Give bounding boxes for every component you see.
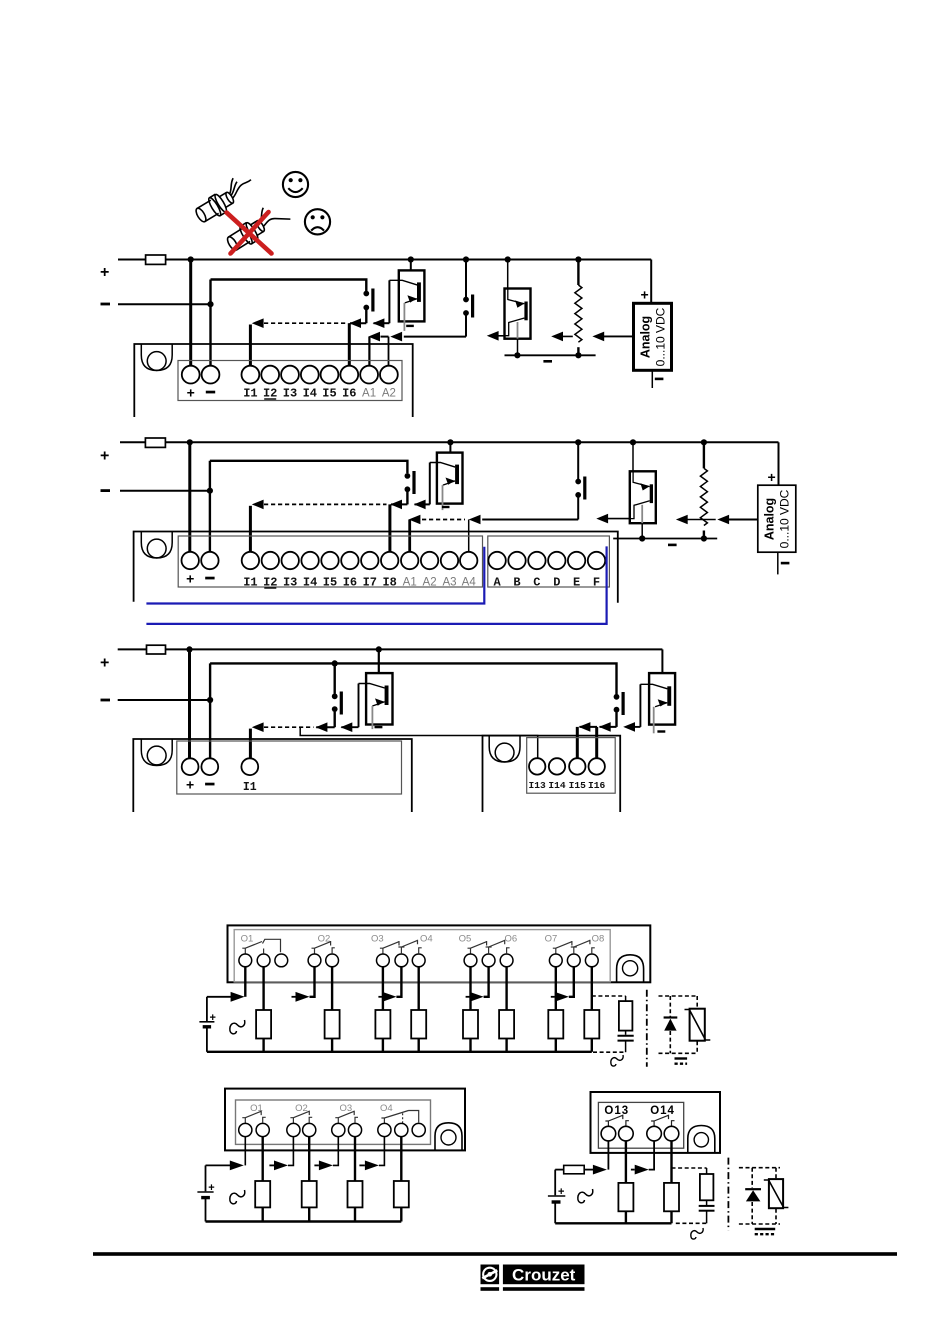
svg-text:Crouzet: Crouzet — [512, 1265, 576, 1284]
svg-text:+: + — [768, 469, 776, 485]
arrow on input row at S5 — [316, 722, 328, 732]
switch S3 contact — [405, 471, 416, 494]
node loop to switch S5 — [332, 660, 338, 666]
dashed input row I1..I8 — [264, 503, 387, 505]
svg-text:A: A — [493, 576, 501, 590]
relay contact O3 M5 — [335, 1111, 358, 1124]
module M1 outline — [134, 344, 412, 417]
wire switch supply loop — [211, 280, 367, 292]
wire fuse to O13 common — [584, 1169, 593, 1171]
wire O3 to load R — [382, 967, 384, 1010]
wire A1 terminal down — [368, 337, 370, 366]
svg-text:F: F — [593, 576, 600, 590]
right row I15 arrow — [579, 722, 591, 732]
svg-text:B: B — [513, 576, 520, 590]
relay contact O2 — [312, 941, 335, 954]
relay contact O1 — [242, 939, 280, 954]
node potentiometer d2 bottom — [701, 535, 707, 541]
load resistor O7 — [548, 1010, 563, 1039]
svg-text:A4: A4 — [462, 577, 477, 589]
module M4 terminal strip — [234, 930, 610, 982]
dashed input row I1..I6 — [264, 322, 346, 324]
wire A4 terminal down — [468, 520, 470, 553]
battery supply d4 — [199, 997, 216, 1052]
svg-text:I14: I14 — [548, 780, 566, 791]
wire bus to sensor B4 — [632, 442, 634, 471]
wire battery to O1 common d5 — [206, 1164, 231, 1166]
svg-text:I5: I5 — [322, 387, 336, 401]
+24V bus wire d2 — [120, 441, 779, 443]
wire O2 common down — [310, 967, 315, 997]
load resistor O4 d5 — [394, 1181, 409, 1207]
module M1 mounting ear — [141, 344, 172, 371]
wire I1 terminal down — [249, 325, 252, 367]
minus label return line — [543, 360, 552, 363]
arrow into O1 common — [231, 992, 245, 1002]
svg-text:O7: O7 — [545, 933, 558, 944]
wire O2 load to rail — [331, 1039, 333, 1052]
wire I1 terminal down d3 — [249, 729, 252, 759]
proximity sensor (bad orientation, crossed out) — [222, 199, 290, 254]
load resistor O2 — [325, 1010, 340, 1039]
relay contacts O5 O6 — [468, 940, 510, 954]
wire O4 common down d5 — [379, 1137, 385, 1166]
snubber capacitor — [625, 1031, 627, 1035]
node switch S4 on bus — [575, 439, 581, 445]
relay terminal circles M5 — [239, 1123, 426, 1136]
svg-text:O5: O5 — [459, 933, 472, 944]
snubber capacitor d6 — [706, 1200, 708, 1205]
fuse F1 — [146, 255, 166, 264]
3-wire sensor B3 — [430, 453, 463, 511]
arrow sensor B4 output — [596, 514, 608, 524]
load resistor O13 — [618, 1183, 633, 1211]
potentiometer R2 wiper arrow — [681, 519, 716, 521]
serial link blue wire 2 — [146, 546, 606, 624]
wire O3 common down d5 — [333, 1137, 338, 1166]
wire analog row to switch S2 — [404, 336, 466, 338]
wire battery to O1 common — [207, 996, 231, 998]
svg-text:I7: I7 — [363, 576, 377, 590]
switch S6 contact — [614, 692, 625, 715]
wire O2 common down d5 — [288, 1137, 293, 1166]
wire O4 to load R — [418, 967, 420, 1010]
svg-text:I5: I5 — [323, 576, 337, 590]
load resistor O6 — [499, 1010, 514, 1039]
load symbol d4 — [230, 1020, 245, 1034]
relay contacts O7 O8 — [553, 940, 595, 954]
wire bus to switch S2 — [465, 260, 467, 298]
wire switch supply loop d3 — [210, 663, 616, 694]
dashed analog row A1..A4 — [422, 519, 465, 521]
wire switch supply loop d2 — [210, 461, 408, 473]
wire analog row to switch S4 — [482, 519, 578, 521]
wire - terminal down — [209, 280, 211, 367]
wire A2 terminal down — [388, 337, 390, 366]
alternatives separator dash-dot d6 — [727, 1158, 729, 1231]
svg-text:I15: I15 — [569, 780, 587, 791]
wire sensor B2 output arrow — [492, 335, 505, 337]
svg-text:I13: I13 — [529, 780, 547, 791]
wire loop down to switch S5 — [334, 663, 336, 693]
svg-text:+: + — [100, 264, 109, 281]
terminal circles M3b — [529, 758, 605, 774]
module M2 mounting ear — [141, 532, 172, 559]
snubber resistor — [625, 996, 627, 1001]
arrow into O3/O4 common — [382, 992, 396, 1002]
wire O13 common down — [607, 1141, 609, 1170]
svg-text:I1: I1 — [243, 781, 257, 794]
label minus d3 — [101, 699, 111, 702]
svg-text:I3: I3 — [283, 387, 297, 401]
svg-text:O4: O4 — [380, 1103, 393, 1114]
analog row A1 arrow — [368, 332, 380, 342]
arrow into O2 common — [296, 992, 310, 1002]
arrow into O14 common — [635, 1165, 649, 1175]
0V wire d2 — [120, 490, 210, 492]
battery supply d6 — [548, 1170, 565, 1224]
wire analog minus down d2 — [777, 552, 779, 574]
DC symbol — [675, 1057, 688, 1059]
load resistor O14 — [664, 1183, 679, 1211]
node 0V at - terminal d2 — [207, 488, 213, 494]
wire sensor B5 output down — [358, 684, 360, 728]
relay contact O14 — [651, 1115, 674, 1127]
alternatives separator dash-dot — [646, 990, 648, 1067]
arrow into A2 node — [390, 332, 402, 342]
arrow sensor B3 output — [414, 500, 426, 510]
dashed input row d3 — [264, 726, 314, 728]
wire I15 terminal down — [576, 727, 579, 759]
wire + terminal down d3 — [188, 649, 191, 758]
wire bus to analog + — [650, 260, 652, 304]
minus label analog — [655, 378, 664, 381]
wire O1 NO to load R — [262, 967, 264, 1010]
wire + terminal down d2 — [188, 442, 191, 552]
node sensor B4 emitter — [639, 535, 645, 541]
logo underline — [481, 1287, 500, 1291]
analog source arrow — [598, 335, 634, 337]
module M4 outline — [228, 925, 651, 982]
3-wire sensor B2 — [505, 289, 531, 356]
svg-text:I4: I4 — [303, 576, 317, 590]
relay contacts O3 O4 — [380, 940, 422, 954]
relay labels O1..O8 — [241, 933, 605, 944]
svg-text:C: C — [533, 576, 540, 590]
3-wire sensor B1 — [389, 270, 424, 331]
wire bus to analog + d2 — [778, 442, 780, 485]
wire O4 NO to load R d5 — [400, 1137, 402, 1181]
minus label analog d2 — [781, 562, 790, 565]
label minus — [101, 303, 111, 306]
arrow into O4 common d5 — [365, 1161, 379, 1171]
load symbol d6 — [578, 1189, 593, 1203]
wire O1 NO to load R d5 — [262, 1137, 264, 1181]
arrow sensor B6 output — [623, 722, 635, 732]
terminal circles M2 — [182, 552, 606, 569]
snubber dashed link bottom — [593, 1051, 626, 1053]
load resistor O3 d5 — [348, 1181, 363, 1207]
module M1 terminal strip — [178, 361, 402, 401]
0V rail d5 — [206, 1220, 402, 1222]
relay labels O1..O4 M5 — [250, 1103, 392, 1114]
protection diode dashed box — [659, 996, 698, 1053]
wire O1 common down d5 — [244, 1137, 246, 1166]
happy smiley — [283, 172, 308, 197]
svg-text:Analog: Analog — [639, 316, 653, 358]
wire I6 terminal down — [348, 323, 351, 366]
snubber dashed link top — [592, 995, 626, 997]
snubber dashed link bottom d6 — [676, 1222, 707, 1224]
diode D2 — [745, 1188, 761, 1190]
svg-text:+: + — [187, 385, 195, 401]
wire O3 NO to load R d5 — [354, 1137, 356, 1181]
wire - terminal down d2 — [209, 461, 211, 552]
load resistor O3 — [375, 1010, 390, 1039]
module M2 terminal strip I/A — [178, 536, 482, 587]
module M2 outline — [134, 532, 618, 603]
switch S4 contact — [575, 477, 586, 500]
arrow into I1 d2 — [252, 500, 264, 510]
switch S5 contact — [332, 692, 343, 715]
0V return line under sensor B4 — [613, 538, 717, 540]
proximity sensor (good orientation) — [190, 171, 258, 226]
diode D1 — [664, 1016, 678, 1018]
wire sensor B4 output arrow — [601, 518, 630, 520]
module M5 outline — [225, 1089, 465, 1151]
svg-text:E: E — [573, 576, 580, 590]
wire O7 to load R — [555, 967, 557, 1010]
fuse F3 — [147, 645, 166, 654]
potentiometer R2 — [700, 442, 707, 538]
svg-text:A1: A1 — [362, 388, 376, 400]
wire input row to S5 — [316, 726, 335, 728]
wire + terminal down — [189, 260, 192, 367]
node 0V at - terminal — [207, 301, 213, 307]
analog source box 0..10VDC d2 — [758, 485, 796, 552]
node sensor B5 on bus — [376, 646, 382, 652]
node sensor B2 on bus — [505, 256, 511, 262]
extension wire to I13 — [300, 727, 538, 758]
footer rule — [93, 1252, 897, 1256]
node on bus at + terminal — [188, 256, 194, 262]
wire sensor B6 output down — [639, 684, 641, 727]
wire sensor B1 output to row — [374, 322, 390, 324]
svg-text:I8: I8 — [382, 576, 396, 590]
module M2 terminal strip A-F — [488, 536, 610, 587]
svg-text:+: + — [210, 1012, 216, 1024]
wire analog minus down — [651, 370, 653, 388]
wire - terminal down d3 — [209, 663, 211, 758]
relay contact O13 — [605, 1115, 629, 1127]
relay contact O4 M5 — [381, 1111, 418, 1124]
wire O5/O6 common down — [484, 967, 489, 997]
snubber dashed link top d6 — [672, 1167, 707, 1169]
arrow into A4 — [469, 515, 481, 525]
wire O13 NO to load R — [625, 1141, 627, 1183]
wire bus to sensor B5 — [378, 649, 380, 673]
svg-text:I1: I1 — [243, 576, 257, 590]
wire bus to sensor B3 — [449, 442, 451, 452]
module M6 mounting ear — [688, 1126, 715, 1153]
svg-text:0...10 VDC: 0...10 VDC — [654, 307, 668, 366]
red X cross — [227, 212, 272, 254]
wire bus corner to sensor B6 — [661, 649, 663, 673]
svg-text:+: + — [100, 655, 109, 672]
relay contact O2 M5 — [290, 1111, 312, 1124]
module M5 terminal strip — [236, 1100, 431, 1144]
analog source arrow d2 — [722, 519, 758, 521]
module M4 mounting ear — [617, 955, 644, 983]
minus label return line d2 — [668, 544, 677, 547]
node switch S2 on bus — [463, 256, 469, 262]
Crouzet logo wordmark — [503, 1265, 585, 1285]
wire O8 to load R — [591, 967, 593, 1010]
node potentiometer d2 on bus — [701, 439, 707, 445]
wire input row I6 to S1 — [350, 322, 366, 324]
wire battery to fuse d6 — [555, 1169, 564, 1171]
wire I8 terminal down — [388, 504, 391, 552]
0V wire d3 — [118, 699, 210, 701]
svg-text:I4: I4 — [303, 387, 317, 401]
wire switch S2 down to analog row — [465, 316, 467, 337]
wire sensor B6 output to row — [627, 726, 641, 728]
3-wire sensor B5 — [359, 673, 393, 729]
wire switch S6 down to row — [615, 712, 617, 727]
wire O2 NO to load R d5 — [308, 1137, 310, 1181]
arrow into I1 d3 — [252, 722, 264, 732]
analog source box 0..10VDC — [634, 303, 672, 370]
Crouzet logo icon — [481, 1265, 500, 1285]
3-wire sensor B4 — [630, 471, 656, 538]
svg-text:O8: O8 — [592, 933, 605, 944]
svg-text:A2: A2 — [423, 577, 437, 589]
node potentiometer bottom — [575, 352, 581, 358]
relay terminal circles M4 — [239, 954, 598, 967]
switch S1 contact (2-wire sensor) — [363, 289, 374, 312]
wire bus to sensor B1 — [410, 260, 412, 271]
svg-text:O4: O4 — [420, 933, 433, 944]
svg-text:+: + — [186, 777, 194, 793]
load resistor O1 d5 — [255, 1181, 270, 1207]
wire A1 terminal down d2 — [408, 520, 411, 553]
svg-text:+: + — [208, 1182, 214, 1194]
wire O7/O8 common down — [569, 967, 574, 997]
svg-text:I3: I3 — [283, 576, 297, 590]
wire O2 NO to load R — [331, 967, 333, 1010]
wire O6 to load R — [505, 967, 507, 1010]
load resistor O1 — [256, 1010, 271, 1039]
wire row I15 to I16 — [580, 726, 598, 728]
svg-text:O13: O13 — [604, 1105, 629, 1117]
node sensor B1 on bus — [408, 256, 414, 262]
serial link blue wire 1 — [146, 547, 484, 604]
wire row I16 to switch S6 — [600, 726, 617, 728]
+24V bus wire d3 — [118, 648, 663, 650]
arrow into O1 common d5 — [230, 1161, 244, 1171]
fuse F2 — [145, 438, 165, 447]
snubber resistor d6 — [706, 1168, 708, 1174]
wire sensor B3 output down — [429, 463, 431, 505]
+24V bus wire — [118, 259, 651, 261]
arrow into O13 common — [593, 1165, 607, 1175]
wire O14 NO to load R — [670, 1141, 672, 1183]
svg-text:A2: A2 — [382, 388, 396, 400]
module M3b terminal strip — [527, 738, 616, 794]
svg-text:D: D — [553, 576, 560, 590]
module M3b outline — [483, 736, 621, 812]
svg-text:I16: I16 — [588, 780, 606, 791]
wire sensor B5 output to row — [341, 726, 358, 728]
wire I1 terminal down d2 — [249, 506, 252, 552]
svg-text:+: + — [100, 448, 109, 465]
svg-text:O3: O3 — [371, 933, 384, 944]
svg-text:+: + — [641, 287, 649, 303]
node sensor B4 on bus — [630, 439, 636, 445]
3-wire sensor B6 — [640, 673, 675, 733]
arrow into O5/O6 common — [470, 992, 484, 1002]
svg-text:+: + — [186, 571, 194, 587]
node sensor B3 on bus — [447, 439, 453, 445]
arrow sensor B2 output — [487, 331, 499, 341]
node sensor B2 emitter — [514, 352, 520, 358]
arrow into I6 — [349, 318, 361, 328]
arrow sensor B5 output — [341, 722, 353, 732]
terminal circles M3 — [182, 758, 259, 775]
wire switch S1 to input row — [365, 310, 367, 323]
svg-text:I1: I1 — [243, 387, 257, 401]
wire O1 load to rail — [262, 1039, 264, 1052]
varistor RV2 — [769, 1179, 783, 1208]
wire O14 common down — [649, 1141, 654, 1170]
svg-text:+: + — [558, 1186, 564, 1198]
relay contact O1 M5 — [242, 1111, 265, 1124]
svg-text:O1: O1 — [241, 933, 254, 944]
battery supply d5 — [197, 1165, 214, 1221]
arrow sensor B1 output — [373, 318, 385, 328]
svg-text:O6: O6 — [504, 933, 517, 944]
arrow into O2 common d5 — [274, 1161, 288, 1171]
0V wire — [118, 303, 211, 305]
module M3 terminal strip — [177, 741, 402, 794]
wire A1-A2 row — [381, 336, 389, 338]
svg-text:O14: O14 — [650, 1105, 675, 1117]
varistor RV1 — [690, 1009, 705, 1041]
wire bus to switch S4 — [577, 442, 579, 479]
sad smiley — [305, 209, 330, 234]
wire sensor B1 output down — [388, 280, 390, 323]
potentiometer R1 — [575, 260, 582, 356]
module M6 terminal strip — [598, 1102, 683, 1148]
svg-text:0...10 VDC: 0...10 VDC — [778, 489, 792, 548]
node on bus at + terminal d3 — [186, 646, 192, 652]
arrow into O7/O8 common — [555, 992, 569, 1002]
wire O3/O4 common down — [396, 967, 401, 997]
protection diode dashed box d6 — [739, 1168, 780, 1224]
svg-text:A3: A3 — [442, 577, 456, 589]
node 0V at - terminal d3 — [207, 697, 213, 703]
0V rail d4 — [207, 1051, 592, 1053]
terminal circles M1 — [182, 366, 398, 384]
relay terminal circles M6 — [601, 1126, 679, 1141]
analog row arrow into A1 — [409, 515, 421, 525]
0V rail d6 — [555, 1222, 671, 1224]
module M6 outline — [591, 1092, 721, 1153]
wire bus to sensor B2 — [507, 260, 509, 289]
svg-text:I6: I6 — [343, 576, 357, 590]
fuse F4 — [564, 1165, 585, 1173]
wire sensor B3 output to row — [415, 503, 430, 505]
